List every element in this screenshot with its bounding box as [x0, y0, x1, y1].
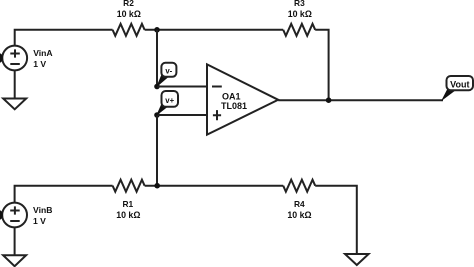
svg-text:10 kΩ: 10 kΩ [116, 210, 140, 220]
svg-text:10 kΩ: 10 kΩ [287, 210, 311, 220]
wire R3 down to output node [315, 30, 328, 100]
resistor R1 [113, 180, 145, 192]
svg-text:1 V: 1 V [33, 216, 46, 226]
net label Vout [441, 76, 473, 101]
svg-text:VinB: VinB [33, 205, 52, 215]
svg-text:R3: R3 [294, 0, 305, 8]
wire R2 to R3 [145, 29, 284, 31]
ground under VinB [3, 255, 26, 266]
ground right [345, 254, 369, 265]
junction bottom node [154, 183, 160, 189]
wire VinB top to R1 [15, 186, 113, 203]
wire VinB bottom to ground [14, 227, 16, 255]
resistor R4 [283, 180, 315, 192]
VinA clipped handle blob [0, 53, 3, 62]
svg-text:10 kΩ: 10 kΩ [288, 9, 312, 19]
net label v- [156, 63, 176, 88]
junction top node [154, 27, 160, 33]
svg-text:v+: v+ [165, 96, 174, 105]
wire top node down to v- node [156, 30, 158, 87]
wire v+ node to op-amp non-inverting input [157, 114, 207, 116]
node v- dot [154, 84, 160, 90]
svg-text:1 V: 1 V [33, 59, 46, 69]
op-amp OA1 [207, 64, 278, 134]
svg-text:R1: R1 [122, 199, 133, 209]
net label v+ [156, 91, 178, 116]
junction output node [326, 97, 332, 103]
svg-text:Vout: Vout [450, 79, 469, 89]
svg-text:v-: v- [165, 66, 172, 75]
wire R4 to right ground [315, 186, 357, 253]
ground under VinA [3, 70, 26, 109]
wire v+ node down to bottom wire [156, 115, 158, 186]
wire R1 to R4 [145, 185, 284, 187]
output wire [278, 99, 443, 101]
wire v- node to op-amp inverting input [157, 86, 207, 88]
svg-text:R4: R4 [294, 199, 305, 209]
VinB clipped handle blob [0, 210, 3, 219]
voltage source VinB [2, 203, 27, 228]
svg-text:VinA: VinA [33, 48, 52, 58]
svg-text:TL081: TL081 [221, 101, 247, 111]
voltage source VinA [2, 46, 27, 71]
svg-text:10 kΩ: 10 kΩ [117, 9, 141, 19]
svg-text:R2: R2 [123, 0, 134, 8]
wire VinA top to R2 [15, 30, 113, 46]
resistor R2 [113, 24, 145, 36]
node v+ dot [154, 112, 160, 118]
resistor R3 [283, 24, 315, 36]
